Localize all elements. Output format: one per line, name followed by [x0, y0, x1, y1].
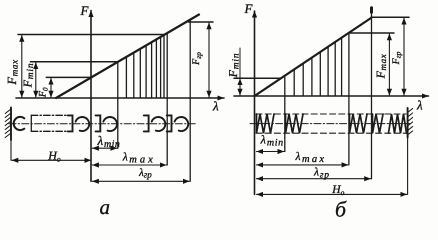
svg-text:F: F: [80, 3, 90, 18]
F_max dimension line (fig a): [21, 35, 23, 97]
coil group at lambda_min (fig b): [286, 114, 304, 133]
F_0 dimension line (fig a): [50, 78, 52, 97]
lambda_gr dimension (fig b): [257, 178, 371, 180]
hatching between lambda_min and lambda_max (fig a): [126, 35, 164, 98]
lambda_max dimension (fig b): [257, 164, 349, 166]
svg-text:Ho: Ho: [331, 184, 344, 197]
spring centerline (fig a): [9, 123, 196, 125]
wall support (fig a): [5, 108, 11, 161]
svg-text:λmax: λmax: [122, 152, 156, 166]
spring end at lambda_max (fig a): [144, 115, 165, 131]
svg-text:λmax: λmax: [295, 151, 327, 165]
F_max level line (fig a): [18, 34, 164, 36]
spring centerline (fig b): [250, 123, 410, 125]
svg-text:б: б: [335, 197, 347, 218]
spring end at lambda_gr (fig a): [167, 115, 188, 131]
F_0 level line (fig a): [46, 76, 91, 78]
F axis (fig a): [90, 11, 92, 182]
H0 dimension (fig b): [257, 193, 407, 195]
lambda_max boundary vertical (fig b): [348, 33, 350, 165]
F_gr level line (fig a): [189, 21, 213, 23]
lambda axis (fig b): [234, 95, 429, 97]
F axis (fig b): [254, 11, 256, 194]
lambda_min boundary vertical (fig b): [284, 76, 286, 152]
svg-text:а: а: [99, 195, 110, 217]
svg-text:F: F: [244, 1, 254, 16]
F_min level line (fig a): [30, 61, 118, 63]
lambda_min boundary vertical (fig a): [117, 62, 119, 148]
spring end at lambda_min (fig a): [96, 115, 117, 131]
svg-text:F0: F0: [38, 87, 50, 98]
F_min level line (fig b): [234, 77, 281, 79]
svg-text:Fгр: Fгр: [191, 52, 203, 66]
spring characteristic line (fig a): [56, 15, 199, 99]
lambda_gr boundary vertical (fig b): [371, 8, 373, 179]
lambda_min dimension (fig a): [92, 147, 117, 149]
lambda_min dimension (fig b): [257, 151, 285, 153]
spring body phantom outline (fig a): [31, 115, 72, 131]
spring envelope dashed outline (fig b): [256, 114, 406, 133]
lambda_gr boundary vertical (fig a): [189, 20, 191, 182]
svg-text:λmin: λmin: [260, 133, 284, 149]
F_max dimension line (fig b): [388, 34, 390, 96]
svg-text:λгр: λгр: [138, 167, 152, 180]
lambda_max boundary vertical (fig a): [166, 33, 168, 165]
coil group at lambda_max (fig b): [350, 114, 368, 133]
H0 dimension (fig a): [12, 159, 91, 161]
svg-text:Fmin: Fmin: [21, 63, 37, 89]
wall support (fig b): [408, 108, 413, 194]
svg-text:Fгр: Fгр: [391, 51, 403, 65]
lambda_max dimension (fig a): [92, 164, 166, 166]
svg-text:λmin: λmin: [97, 133, 121, 150]
coil group at free end (fig b): [257, 114, 275, 133]
F_gr dimension line (fig b): [403, 18, 405, 95]
F_min dimension line (fig a): [35, 63, 37, 98]
svg-text:λ: λ: [212, 99, 219, 114]
coil group at lambda_gr (fig b): [373, 114, 384, 133]
F_gr level line (fig b): [371, 16, 409, 18]
F_min dimension line (fig b): [239, 48, 241, 78]
hatching between lambda_min and lambda_max (fig b): [294, 38, 341, 96]
lambda axis (fig a): [16, 97, 224, 99]
svg-text:Ho: Ho: [47, 148, 61, 163]
lambda_gr dimension (fig a): [92, 180, 189, 182]
svg-text:Fmax: Fmax: [5, 59, 20, 86]
svg-text:Fmax: Fmax: [374, 54, 389, 80]
svg-text:λ: λ: [416, 98, 423, 113]
F_gr dimension line (fig a): [208, 23, 210, 98]
svg-text:Fmin: Fmin: [226, 53, 242, 79]
spring characteristic line (fig b): [255, 18, 372, 96]
wall hook of extension spring (fig a): [14, 117, 25, 130]
svg-text:λгр: λгр: [313, 167, 330, 181]
spring end at free length H0 (fig a): [68, 115, 89, 131]
coil group at wall, solid (fig b): [389, 114, 407, 133]
F_max level line (fig b): [349, 32, 394, 34]
